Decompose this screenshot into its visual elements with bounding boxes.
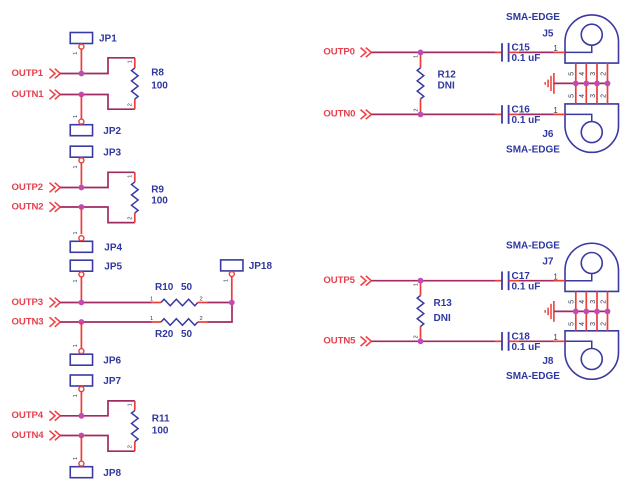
port OUTP5 xyxy=(323,275,371,286)
svg-text:OUTN1: OUTN1 xyxy=(12,89,45,100)
svg-text:OUTP5: OUTP5 xyxy=(323,275,355,286)
wire OUTN4 to R11 pin 2 xyxy=(60,436,135,452)
wire (pin 5 interconnect) xyxy=(575,291,577,330)
jumper JP8 xyxy=(70,457,121,479)
port OUTN3 xyxy=(12,316,61,327)
svg-text:R10: R10 xyxy=(155,282,174,293)
svg-text:5: 5 xyxy=(569,72,576,76)
wire (pin 2 interconnect) xyxy=(607,63,609,104)
wire OUTN3 to JP6 xyxy=(80,322,82,348)
wire JP5 to OUTP3 xyxy=(80,277,82,303)
wire OUTN0 to C16 xyxy=(371,113,495,115)
svg-text:J5: J5 xyxy=(542,28,554,39)
svg-text:3: 3 xyxy=(590,300,597,304)
svg-text:1: 1 xyxy=(128,175,134,178)
ground xyxy=(545,301,554,322)
resistor R13 xyxy=(413,281,452,342)
svg-text:2: 2 xyxy=(600,322,607,326)
port OUTP2 xyxy=(12,182,61,193)
junction OUTP0/R12 xyxy=(418,50,424,56)
svg-text:5: 5 xyxy=(569,94,576,98)
svg-text:SMA-EDGE: SMA-EDGE xyxy=(506,12,560,23)
port OUTN0 xyxy=(323,109,371,120)
wire C15 to J5 pin 1 xyxy=(519,51,554,53)
svg-text:JP8: JP8 xyxy=(103,468,121,479)
capacitor C15 xyxy=(496,43,541,64)
wire OUTP2 to R9 pin 1 xyxy=(60,172,135,187)
wire R20 pin 2 up to node xyxy=(208,303,233,323)
svg-text:1: 1 xyxy=(73,52,79,55)
wire (ground bus) xyxy=(554,310,608,312)
resistor R20 xyxy=(150,316,208,340)
wire OUTN3 to R20 pin 1 xyxy=(60,321,151,323)
svg-text:JP6: JP6 xyxy=(103,355,121,366)
svg-text:J6: J6 xyxy=(542,129,554,140)
svg-text:1: 1 xyxy=(553,106,558,115)
svg-text:1: 1 xyxy=(128,60,134,63)
svg-text:50: 50 xyxy=(181,282,193,293)
wire (ground bus) xyxy=(554,82,608,84)
junction OUTP3/JP5 xyxy=(79,300,85,306)
svg-text:100: 100 xyxy=(151,81,168,92)
svg-text:JP4: JP4 xyxy=(104,242,122,253)
svg-text:OUTP1: OUTP1 xyxy=(12,68,44,79)
svg-text:0.1 uF: 0.1 uF xyxy=(512,281,541,292)
svg-text:1: 1 xyxy=(73,344,79,347)
svg-text:OUTN4: OUTN4 xyxy=(12,430,45,441)
junction (bus pin 4) xyxy=(583,309,589,315)
svg-text:1: 1 xyxy=(224,279,230,282)
svg-text:1: 1 xyxy=(553,333,558,342)
wire JP18 to node xyxy=(231,276,233,302)
wire OUTP5 to C17 xyxy=(371,280,495,282)
svg-text:100: 100 xyxy=(151,196,168,207)
svg-text:4: 4 xyxy=(579,72,586,76)
capacitor C16 xyxy=(496,105,541,126)
jumper JP4 xyxy=(70,231,122,253)
svg-text:4: 4 xyxy=(579,94,586,98)
svg-text:R11: R11 xyxy=(152,413,170,424)
junction OUTN1/JP2 xyxy=(79,92,85,98)
wire (pin 3 interconnect) xyxy=(596,291,598,330)
svg-text:2: 2 xyxy=(600,94,607,98)
svg-text:SMA-EDGE: SMA-EDGE xyxy=(506,144,560,155)
wire OUTP3 to R10 pin 1 xyxy=(60,302,151,304)
svg-text:1: 1 xyxy=(413,283,419,286)
svg-text:OUTN3: OUTN3 xyxy=(12,316,44,327)
jumper JP7 xyxy=(70,375,121,397)
wire OUTN2 to JP4 xyxy=(80,207,82,234)
jumper JP2 xyxy=(70,115,121,137)
svg-text:OUTP4: OUTP4 xyxy=(12,410,44,421)
svg-text:JP2: JP2 xyxy=(103,126,121,137)
capacitor C18 xyxy=(496,332,541,353)
junction (bus pin 4) xyxy=(583,81,589,87)
svg-text:1: 1 xyxy=(73,115,79,118)
wire OUTN1 to R8 pin 2 xyxy=(60,95,135,110)
svg-text:OUTN0: OUTN0 xyxy=(323,109,355,120)
svg-text:1: 1 xyxy=(553,44,558,53)
wire (pin 5 interconnect) xyxy=(575,63,577,104)
junction OUTP4/JP7 xyxy=(79,413,85,419)
svg-text:2: 2 xyxy=(128,103,134,106)
wire R10 pin 2 to node xyxy=(208,302,233,304)
svg-text:JP5: JP5 xyxy=(104,261,122,272)
svg-text:2: 2 xyxy=(128,217,134,220)
wire (pin 4 interconnect) xyxy=(585,291,587,330)
svg-text:OUTP2: OUTP2 xyxy=(12,182,44,193)
svg-text:R20: R20 xyxy=(155,329,174,340)
port OUTP1 xyxy=(12,68,61,79)
port OUTP4 xyxy=(12,410,61,421)
svg-text:SMA-EDGE: SMA-EDGE xyxy=(506,241,560,252)
junction (bus pin 3) xyxy=(594,309,600,315)
svg-text:3: 3 xyxy=(590,94,597,98)
svg-text:1: 1 xyxy=(128,403,134,406)
svg-text:0.1 uF: 0.1 uF xyxy=(512,53,541,64)
wire C16 to J6 pin 1 xyxy=(519,113,554,115)
svg-text:OUTP0: OUTP0 xyxy=(323,47,355,58)
junction (bus pin 2) xyxy=(605,81,611,87)
svg-text:3: 3 xyxy=(590,322,597,326)
wire C17 to J7 pin 1 xyxy=(519,280,554,282)
svg-text:0.1 uF: 0.1 uF xyxy=(512,115,541,126)
svg-text:1: 1 xyxy=(73,165,79,168)
junction (bus pin 5) xyxy=(573,309,579,315)
pin 1 stub xyxy=(554,113,566,115)
junction OUTP5/R13 xyxy=(418,278,424,284)
svg-text:2: 2 xyxy=(128,445,134,448)
port OUTP0 xyxy=(323,47,371,58)
wire (pin 3 interconnect) xyxy=(596,63,598,104)
wire JP7 to OUTP4 xyxy=(80,392,82,416)
connector J7 (SMA-EDGE) xyxy=(506,241,618,292)
svg-text:R13: R13 xyxy=(434,298,453,309)
svg-text:2: 2 xyxy=(200,297,203,303)
wire OUTN4 to JP8 xyxy=(80,436,82,461)
junction OUTN5/R13 xyxy=(418,338,424,344)
jumper JP18 xyxy=(221,260,273,282)
pin 1 stub xyxy=(554,280,566,282)
svg-text:0.1 uF: 0.1 uF xyxy=(512,342,541,353)
jumper JP1 xyxy=(70,33,117,55)
svg-text:4: 4 xyxy=(579,300,586,304)
svg-text:JP18: JP18 xyxy=(249,261,273,272)
svg-text:R9: R9 xyxy=(151,184,164,195)
resistor R9 xyxy=(128,172,169,222)
jumper JP6 xyxy=(70,344,121,366)
svg-text:2: 2 xyxy=(413,108,419,111)
resistor R8 xyxy=(128,58,169,109)
svg-text:2: 2 xyxy=(600,72,607,76)
port OUTN1 xyxy=(12,89,61,100)
svg-text:1: 1 xyxy=(73,394,79,397)
pin 1 stub xyxy=(554,340,566,342)
junction OUTP2/JP3 xyxy=(79,185,85,191)
svg-text:1: 1 xyxy=(73,231,79,234)
resistor R10 xyxy=(150,282,208,306)
wire OUTP4 to R11 pin 1 xyxy=(60,401,135,416)
svg-text:JP3: JP3 xyxy=(103,147,121,158)
junction R10/R20/JP18 xyxy=(229,300,235,306)
wire OUTN5 to C18 xyxy=(371,340,495,342)
svg-text:2: 2 xyxy=(600,300,607,304)
svg-text:R12: R12 xyxy=(438,69,457,80)
port OUTN2 xyxy=(12,201,61,212)
svg-text:1: 1 xyxy=(73,457,79,460)
junction OUTN0/R12 xyxy=(418,112,424,118)
svg-text:OUTN5: OUTN5 xyxy=(323,336,356,347)
junction OUTN2/JP4 xyxy=(79,204,85,210)
connector J6 (SMA-EDGE) xyxy=(506,104,618,155)
port OUTP3 xyxy=(12,297,61,308)
junction OUTN4/JP8 xyxy=(79,433,85,439)
port OUTN4 xyxy=(12,430,61,441)
wire JP3 to OUTP2 xyxy=(80,163,82,188)
svg-text:SMA-EDGE: SMA-EDGE xyxy=(506,371,560,382)
svg-text:3: 3 xyxy=(590,72,597,76)
wire OUTN1 to JP2 xyxy=(80,95,82,119)
pin 1 stub xyxy=(554,51,566,53)
wire (pin 2 interconnect) xyxy=(607,291,609,330)
svg-text:100: 100 xyxy=(152,426,169,437)
capacitor C17 xyxy=(496,271,541,292)
jumper JP3 xyxy=(70,146,121,168)
ground xyxy=(545,73,554,94)
svg-text:J7: J7 xyxy=(542,257,554,268)
svg-text:1: 1 xyxy=(413,55,419,58)
svg-text:2: 2 xyxy=(413,335,419,338)
svg-text:5: 5 xyxy=(569,300,576,304)
junction (bus pin 3) xyxy=(594,81,600,87)
connector J5 (SMA-EDGE) xyxy=(506,12,618,63)
svg-text:2: 2 xyxy=(200,316,203,322)
resistor R11 xyxy=(128,401,170,451)
connector J8 (SMA-EDGE) xyxy=(506,331,618,382)
wire C18 to J8 pin 1 xyxy=(519,340,554,342)
svg-text:DNI: DNI xyxy=(438,80,455,91)
junction OUTN3/JP6 xyxy=(79,319,85,325)
svg-text:JP1: JP1 xyxy=(99,34,117,45)
svg-text:50: 50 xyxy=(181,329,193,340)
wire OUTN2 to R9 pin 2 xyxy=(60,207,135,223)
junction OUTP1/JP1 xyxy=(79,71,85,77)
svg-text:1: 1 xyxy=(73,279,79,282)
svg-text:J8: J8 xyxy=(542,356,554,367)
svg-text:1: 1 xyxy=(150,297,153,303)
jumper JP5 xyxy=(70,260,122,282)
svg-text:OUTP3: OUTP3 xyxy=(12,297,44,308)
svg-text:R8: R8 xyxy=(151,68,164,79)
svg-text:1: 1 xyxy=(150,316,153,322)
svg-text:JP7: JP7 xyxy=(103,376,121,387)
port OUTN5 xyxy=(323,336,371,347)
svg-text:1: 1 xyxy=(553,272,558,281)
junction (bus pin 5) xyxy=(573,81,579,87)
wire OUTP0 to C15 xyxy=(371,51,495,53)
svg-text:4: 4 xyxy=(579,322,586,326)
svg-text:5: 5 xyxy=(569,322,576,326)
wire (pin 4 interconnect) xyxy=(585,63,587,104)
resistor R12 xyxy=(413,52,456,114)
junction (bus pin 2) xyxy=(605,309,611,315)
svg-text:OUTN2: OUTN2 xyxy=(12,201,44,212)
svg-text:DNI: DNI xyxy=(434,313,451,324)
wire OUTP1 to R8 pin 1 xyxy=(60,58,135,74)
wire JP1 to OUTP1 xyxy=(80,49,82,74)
